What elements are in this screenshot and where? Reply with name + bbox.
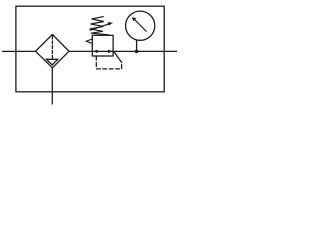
regulator spring [90,17,109,35]
regulator flow arrow left head [93,50,97,54]
wire inlet pipe [3,50,36,52]
enclosure box [16,6,164,92]
filter dashed center line [51,36,53,59]
junction node [135,50,139,54]
regulator body [92,35,113,56]
gauge needle [135,20,146,31]
gauge stem [136,40,138,51]
wire drain line [51,68,53,104]
pilot line diagonal [115,53,122,63]
wire outlet pipe [69,50,176,52]
regulator adjust arrow [90,24,109,30]
regulator vent triangle [86,39,92,44]
regulator flow arrow right head [108,50,112,54]
pilot dashed line [96,57,121,69]
filter diamond body [36,34,70,67]
pressure gauge dial [126,11,155,40]
filter drain triangle [46,59,57,65]
